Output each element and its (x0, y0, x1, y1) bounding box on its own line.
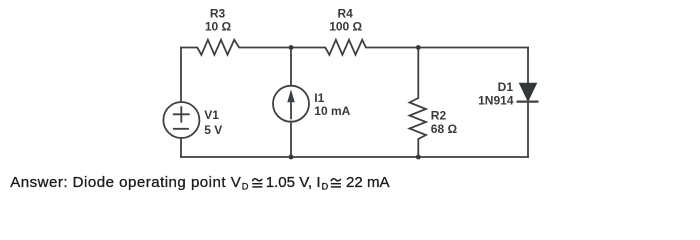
svg-text:V1: V1 (204, 108, 219, 122)
svg-text:R3: R3 (210, 7, 226, 21)
svg-text:D: D (242, 181, 249, 191)
svg-text:1.05 V, I: 1.05 V, I (266, 174, 321, 191)
svg-text:R4: R4 (338, 7, 354, 21)
svg-text:D1: D1 (498, 80, 514, 94)
svg-text:5 V: 5 V (204, 123, 222, 137)
svg-text:10 Ω: 10 Ω (205, 20, 232, 34)
svg-text:68 Ω: 68 Ω (431, 122, 458, 136)
svg-text:1N914: 1N914 (478, 93, 514, 107)
svg-text:22 mA: 22 mA (346, 174, 391, 191)
svg-text:Answer: Diode operating point: Answer: Diode operating point V (10, 174, 241, 191)
svg-text:R2: R2 (431, 108, 447, 122)
svg-text:100 Ω: 100 Ω (329, 20, 362, 34)
svg-text:D: D (322, 181, 329, 191)
svg-text:10 mA: 10 mA (314, 104, 350, 118)
